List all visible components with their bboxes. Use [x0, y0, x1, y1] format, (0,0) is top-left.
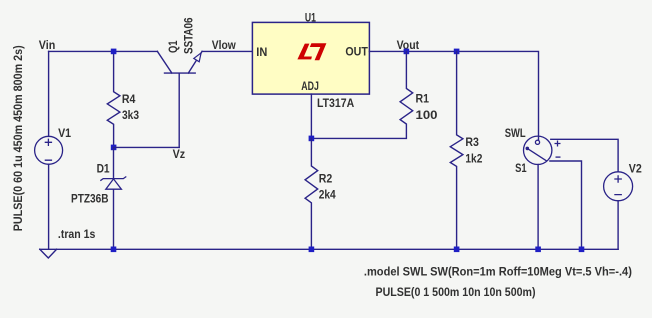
junction D1/ground rail — [111, 247, 117, 253]
svg-text:IN: IN — [256, 45, 267, 59]
svg-text:V1: V1 — [58, 126, 71, 140]
svg-text:SWL: SWL — [505, 126, 526, 140]
wire OUT rail — [369, 51, 538, 140]
switch S1 — [524, 136, 552, 164]
svg-text:U1: U1 — [305, 11, 316, 25]
svg-text:PTZ36B: PTZ36B — [71, 192, 109, 206]
ground — [40, 249, 57, 258]
voltage source V2 — [604, 172, 633, 201]
zener diode D1 — [100, 147, 126, 249]
wire V2 bottom lead — [617, 201, 619, 250]
svg-text:3k3: 3k3 — [122, 108, 139, 122]
junction R2/ground rail — [309, 247, 315, 253]
wire ADJ lead — [310, 94, 312, 138]
svg-text:SSTA06: SSTA06 — [182, 17, 196, 54]
wire V1 top lead — [48, 51, 50, 136]
svg-text:S1: S1 — [515, 161, 527, 175]
svg-text:.model SWL SW(Ron=1m Roff=10Me: .model SWL SW(Ron=1m Roff=10Meg Vt=.5 Vh… — [364, 265, 632, 279]
wire Vin top rail — [49, 50, 158, 52]
svg-text:PULSE(0 60 1u 450m 450m 800m 2: PULSE(0 60 1u 450m 450m 800m 2s) — [11, 45, 25, 231]
transistor Q1 — [157, 51, 202, 147]
junction at Vin/R4 — [111, 49, 117, 55]
resistor R2 — [305, 138, 318, 249]
resistor R1 — [311, 51, 412, 138]
resistor R3 — [450, 51, 463, 249]
wire S1 bottom lead — [537, 165, 539, 250]
svg-text:1k2: 1k2 — [465, 152, 482, 166]
svg-text:D1: D1 — [97, 161, 110, 175]
junction ADJ/R1/R2 — [309, 136, 315, 142]
wire S1 plus control to V2 — [551, 139, 618, 172]
svg-text:100: 100 — [416, 108, 438, 122]
svg-text:PULSE(0 1 500m 10n 10n 500m): PULSE(0 1 500m 10n 10n 500m) — [376, 285, 536, 299]
svg-text:LT317A: LT317A — [317, 96, 354, 110]
svg-text:Vin: Vin — [39, 38, 56, 52]
junction at Vz/R4 — [111, 145, 117, 151]
wire V1 bottom lead — [48, 164, 50, 249]
resistor R4 — [107, 51, 120, 147]
svg-text:V2: V2 — [629, 161, 642, 175]
svg-text:Q1: Q1 — [166, 40, 180, 53]
voltage source V1 — [35, 136, 63, 164]
svg-text:R2: R2 — [319, 171, 333, 185]
junction Vout/R1 — [404, 49, 410, 55]
wire Q1 emitter to IN pin — [202, 50, 252, 52]
svg-text:R3: R3 — [465, 135, 479, 149]
svg-text:OUT: OUT — [345, 45, 368, 59]
svg-text:Vlow: Vlow — [212, 38, 237, 52]
LT logo — [297, 43, 326, 60]
junction OUT/R3 — [454, 49, 460, 55]
pin + of S1 — [555, 141, 561, 147]
pin - of S1 — [556, 156, 561, 158]
op-amp U1 regulator body LT317A — [252, 22, 369, 94]
junction S1/ground rail — [535, 247, 541, 253]
junction R3/ground rail — [454, 247, 460, 253]
junction minus wire/ground rail — [579, 247, 585, 253]
wire S1 minus control to ground — [550, 161, 582, 249]
wire Vz rail — [114, 146, 180, 148]
svg-text:ADJ: ADJ — [301, 79, 319, 93]
svg-text:R4: R4 — [122, 92, 136, 106]
svg-text:R1: R1 — [416, 91, 430, 105]
svg-text:2k4: 2k4 — [319, 188, 336, 202]
wire bottom ground rail — [40, 248, 618, 250]
svg-text:Vz: Vz — [173, 147, 186, 161]
svg-text:.tran 1s: .tran 1s — [58, 227, 96, 241]
